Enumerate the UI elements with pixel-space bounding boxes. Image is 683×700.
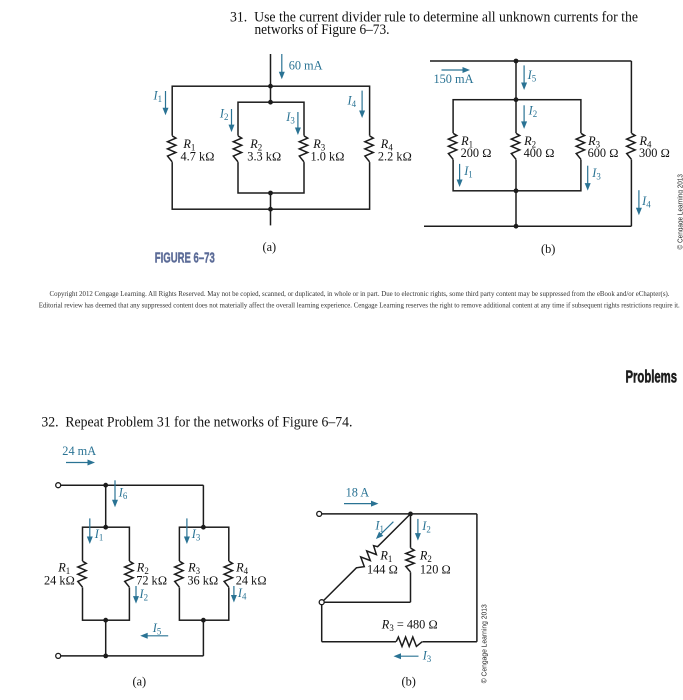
svg-text:150 mA: 150 mA [434, 72, 474, 86]
svg-text:200 Ω: 200 Ω [461, 146, 492, 160]
svg-text:I3: I3 [285, 110, 295, 126]
svg-text:I1: I1 [463, 164, 473, 180]
svg-text:400 Ω: 400 Ω [524, 146, 555, 160]
svg-text:36 kΩ: 36 kΩ [187, 573, 218, 587]
svg-text:24 mA: 24 mA [62, 444, 96, 458]
svg-text:R3 = 480 Ω: R3 = 480 Ω [381, 617, 438, 633]
svg-text:(b): (b) [402, 675, 416, 689]
svg-text:3.3 kΩ: 3.3 kΩ [247, 149, 281, 163]
svg-text:I4: I4 [641, 194, 651, 210]
svg-text:144 Ω: 144 Ω [367, 563, 398, 577]
svg-text:FIGURE 6–73: FIGURE 6–73 [155, 251, 215, 267]
svg-text:Problems: Problems [626, 367, 678, 387]
svg-text:24 kΩ: 24 kΩ [44, 573, 75, 587]
svg-text:I2: I2 [219, 107, 229, 123]
svg-text:I3: I3 [422, 649, 432, 665]
svg-text:I2: I2 [139, 587, 149, 603]
svg-text:© Cengage Learning 2013: © Cengage Learning 2013 [676, 174, 683, 250]
svg-text:(a): (a) [263, 240, 277, 254]
svg-text:I3: I3 [591, 166, 601, 182]
svg-text:4.7 kΩ: 4.7 kΩ [181, 149, 215, 163]
svg-text:(a): (a) [133, 675, 147, 689]
svg-text:I3: I3 [191, 527, 201, 543]
svg-text:Editorial review has deemed th: Editorial review has deemed that any sup… [39, 302, 680, 310]
svg-text:I2: I2 [528, 104, 538, 120]
svg-text:120 Ω: 120 Ω [420, 563, 451, 577]
svg-text:2.2 kΩ: 2.2 kΩ [378, 149, 412, 163]
svg-text:Copyright 2012 Cengage Learnin: Copyright 2012 Cengage Learning. All Rig… [50, 290, 670, 298]
svg-text:72 kΩ: 72 kΩ [136, 573, 167, 587]
svg-text:300 Ω: 300 Ω [639, 146, 670, 160]
svg-text:networks of Figure 6–73.: networks of Figure 6–73. [255, 22, 390, 38]
svg-text:600 Ω: 600 Ω [588, 146, 619, 160]
svg-text:© Cengage Learning 2013: © Cengage Learning 2013 [480, 604, 488, 683]
svg-text:I4: I4 [237, 586, 247, 602]
svg-text:I1: I1 [153, 89, 163, 105]
svg-text:18 A: 18 A [346, 486, 370, 500]
svg-text:I4: I4 [347, 94, 357, 110]
svg-text:I5: I5 [152, 621, 162, 637]
svg-text:1.0 kΩ: 1.0 kΩ [311, 149, 345, 163]
svg-text:32. Repeat Problem 31 for the: 32. Repeat Problem 31 for the networks o… [41, 415, 352, 431]
svg-text:I5: I5 [527, 68, 537, 84]
svg-text:I6: I6 [118, 486, 128, 502]
svg-text:I1: I1 [94, 527, 104, 543]
svg-text:(b): (b) [541, 242, 555, 256]
svg-text:I2: I2 [421, 519, 431, 535]
svg-text:60 mA: 60 mA [289, 59, 323, 73]
